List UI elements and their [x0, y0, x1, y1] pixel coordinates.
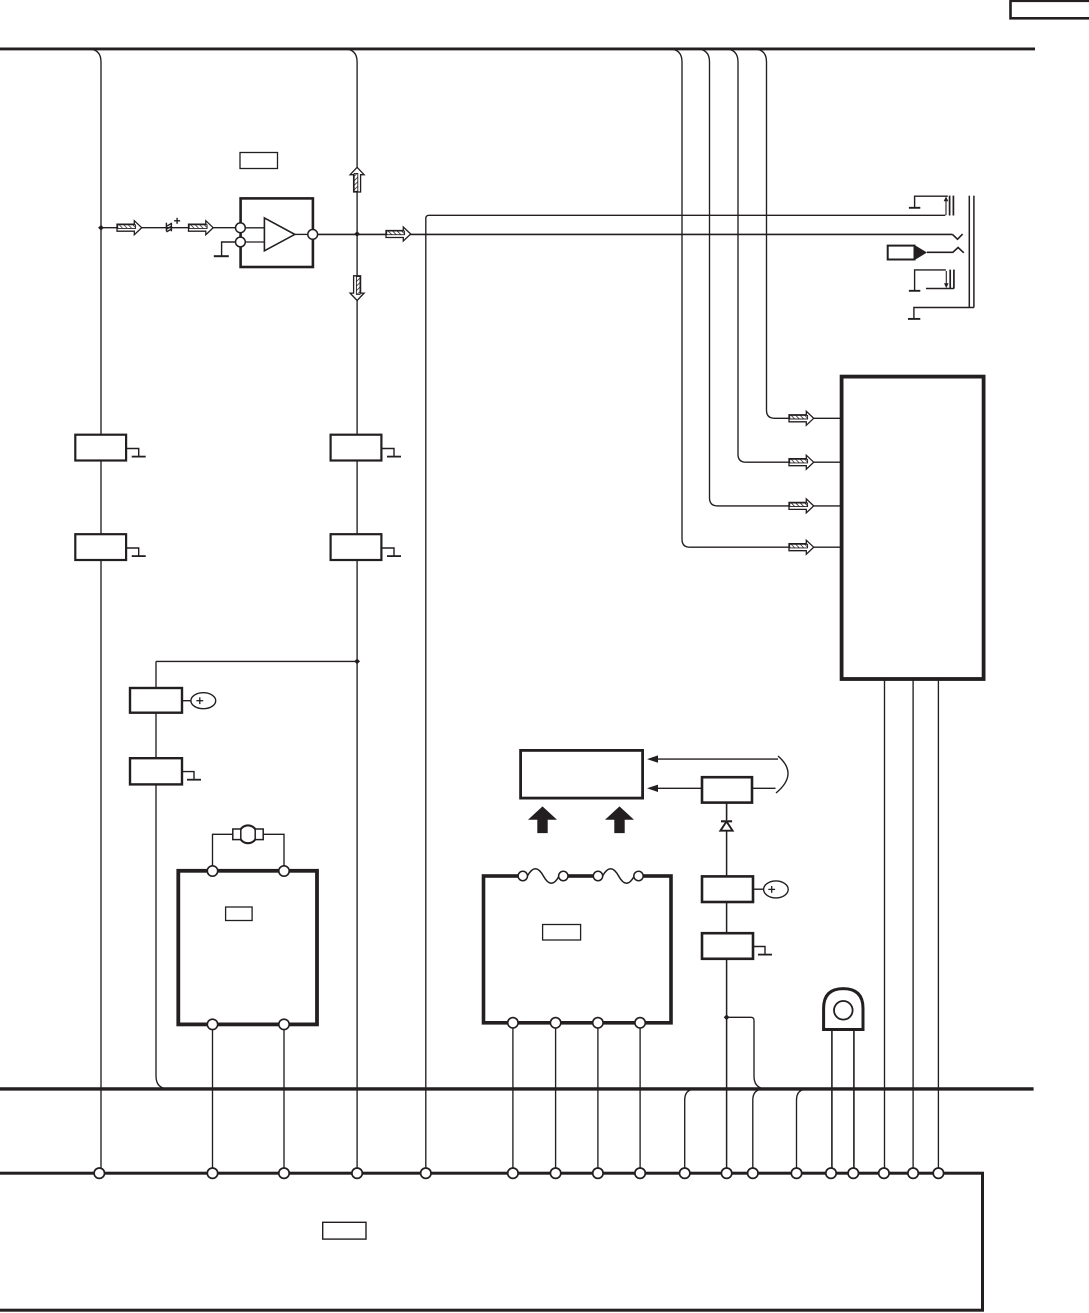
ground stub R-L2	[127, 548, 146, 556]
coil winding 2	[603, 869, 635, 884]
motor block pin top-right	[279, 866, 289, 876]
transformer pin top 4	[634, 871, 643, 880]
signal flow arrow up	[350, 167, 364, 192]
wire IC bottom pin 2	[912, 679, 914, 1171]
ground stub R-L1	[127, 449, 146, 457]
node chain junction	[724, 1014, 730, 1020]
connector pin 9	[635, 1168, 645, 1178]
wire servo input 1 from top bus	[754, 49, 790, 418]
transformer pin top 1	[518, 871, 527, 880]
connector pin 2	[207, 1168, 217, 1178]
op-amp pin circles	[236, 223, 246, 233]
resistor R-R2	[331, 534, 382, 560]
signal flow arrow into IC pin4	[789, 540, 814, 554]
connector pin 17	[908, 1168, 918, 1178]
connector pin 10	[680, 1168, 690, 1178]
capacitor C-L2	[130, 758, 182, 784]
wire servo input 4 from top bus	[669, 49, 789, 547]
wire down to capacitor chain left	[155, 661, 157, 688]
signal flow arrow A3	[386, 227, 411, 241]
ground stub C-L2	[182, 772, 201, 780]
feedback arrow 2	[655, 787, 702, 789]
wire op-amp input from node to op-amp	[101, 227, 240, 229]
signal flow arrow into IC pin1	[789, 411, 814, 425]
connector pin 4	[352, 1168, 362, 1178]
transformer pin top 3	[593, 871, 602, 880]
wire sensor block down to diode	[726, 803, 728, 820]
connector pin 12	[748, 1168, 758, 1178]
connector pin 14	[826, 1168, 836, 1178]
wire C-L2 down onto ground bus	[156, 784, 169, 1089]
connector pin 1	[94, 1168, 104, 1178]
connector pin 11	[721, 1168, 731, 1178]
polarity ellipse C-M1	[753, 888, 763, 890]
jack sleeve	[968, 196, 970, 308]
signal flow arrow down	[350, 276, 364, 301]
coil winding 1	[527, 869, 559, 884]
connector pin 16	[879, 1168, 889, 1178]
ground bus	[0, 1087, 1034, 1090]
ground for inverting input	[222, 242, 236, 256]
signal flow arrow into IC pin2	[789, 455, 814, 469]
connector pin 18	[933, 1168, 943, 1178]
signal flow arrow into IC pin3	[789, 499, 814, 513]
ferrite bead with polarity mark	[166, 218, 180, 232]
resistor R-R1	[331, 435, 382, 461]
ground stub R-R2	[382, 548, 401, 556]
signal flow arrow A2	[189, 221, 214, 235]
connector pin 5	[421, 1168, 431, 1178]
feedback arrow 1	[655, 758, 778, 760]
transformer block box	[484, 876, 672, 1023]
motor block pin bottom-right	[279, 1019, 289, 1029]
transformer block label box	[543, 925, 581, 941]
page reference box top-right	[1011, 1, 1089, 19]
motor block box	[178, 871, 317, 1025]
servo IC box	[842, 377, 984, 679]
transformer pin bottom 3	[593, 1018, 603, 1028]
wire jack sleeve to ground	[914, 308, 974, 319]
jack switch lower contact	[915, 270, 946, 290]
jack switch top actuation arrow	[945, 200, 947, 215]
mechanism block	[521, 750, 643, 798]
photo sensor Q1	[824, 989, 863, 1030]
wire sensor block to loop arc	[752, 787, 776, 789]
ground stub R-R1	[382, 449, 401, 457]
wire IC bottom pin 3	[937, 679, 939, 1171]
capacitor C-L1	[130, 688, 182, 713]
op-amp U1 box	[241, 198, 313, 267]
motor M1	[239, 825, 257, 843]
coil gap covers	[520, 872, 566, 880]
wires transformer pins to connector	[512, 1028, 514, 1171]
wire servo input 3 from top bus	[697, 49, 790, 506]
wire C-M1 to C-M2	[726, 902, 728, 933]
top supply bus	[0, 47, 1035, 50]
op-amp input stub wires	[244, 227, 266, 229]
wire left vertical x=101 from top bus down to bottom connector	[88, 49, 101, 1171]
jack switch lower actuation arrow	[945, 271, 947, 285]
op-amp triangle	[264, 218, 294, 251]
jack switch top contact	[915, 196, 948, 207]
wire branch to ground bus	[727, 1017, 767, 1089]
sensor block	[702, 777, 752, 802]
wire motor pin br to connector	[283, 1030, 285, 1171]
node A input branch	[98, 225, 104, 231]
resistor R-L1	[75, 435, 126, 461]
motor block label box	[226, 907, 253, 921]
motor M1 wires	[213, 834, 233, 869]
transformer pin top 2	[559, 871, 568, 880]
connector pin 3	[279, 1168, 289, 1178]
wire vertical x=356.5 from top bus down to bottom connector	[344, 49, 357, 1171]
wire plug tip	[927, 248, 964, 253]
diode D1	[721, 820, 732, 822]
op-amp label box	[240, 153, 278, 169]
photo sensor Q1 legs	[831, 1030, 833, 1172]
wire headphone return line to vertical x=425.8	[426, 215, 946, 1171]
connector pin 7	[550, 1168, 560, 1178]
resistor R-L2	[75, 534, 126, 560]
capacitor C-M2	[702, 933, 753, 959]
transformer pin bottom 2	[550, 1018, 560, 1028]
connector pin 8	[593, 1168, 603, 1178]
polarity ellipse C-L1	[182, 700, 191, 702]
ground stub C-M2	[753, 947, 772, 955]
drive arrow up 2	[605, 806, 634, 833]
node mid junction	[354, 659, 360, 665]
signal flow arrow A1	[117, 221, 142, 235]
headphone plug	[888, 246, 915, 260]
wire servo input 2 from top bus	[725, 49, 789, 462]
wire op-amp output to headphone jack tip	[318, 233, 953, 235]
bottom connector label box	[323, 1222, 366, 1239]
transformer pin bottom 1	[508, 1018, 518, 1028]
capacitor C-M1	[702, 876, 753, 902]
wire diode to C-M1	[726, 831, 728, 877]
connector pin 15	[848, 1168, 858, 1178]
node output junction	[354, 231, 360, 237]
wire motor pin bl to connector	[212, 1030, 214, 1171]
connector pin 6	[508, 1168, 518, 1178]
wire ground bus branch 1	[685, 1089, 696, 1171]
wire ground bus branch 3	[797, 1089, 808, 1171]
motor block pin bottom-left	[207, 1019, 217, 1029]
wire mid-left horizontal branch	[156, 660, 357, 662]
wire ground bus branch 2	[753, 1089, 764, 1171]
motor block pin top-left	[207, 866, 217, 876]
wire C-M2 down to connector	[726, 959, 728, 1171]
wire between C-L1 and C-L2	[155, 713, 157, 759]
drive arrow up 1	[528, 806, 557, 833]
feedback loop arc	[776, 756, 788, 793]
bottom connector block	[0, 1173, 983, 1310]
connector pin 13	[791, 1168, 801, 1178]
jack tip contact break	[953, 234, 963, 239]
wire IC bottom pin 1	[884, 679, 886, 1171]
transformer pin bottom 4	[635, 1018, 645, 1028]
